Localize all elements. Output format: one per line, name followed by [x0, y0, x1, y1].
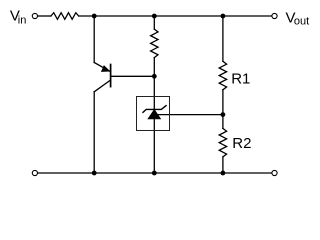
svg-text:out: out [294, 16, 309, 28]
svg-text:in: in [18, 14, 27, 26]
svg-text:R1: R1 [231, 71, 250, 88]
svg-text:R2: R2 [232, 135, 251, 152]
